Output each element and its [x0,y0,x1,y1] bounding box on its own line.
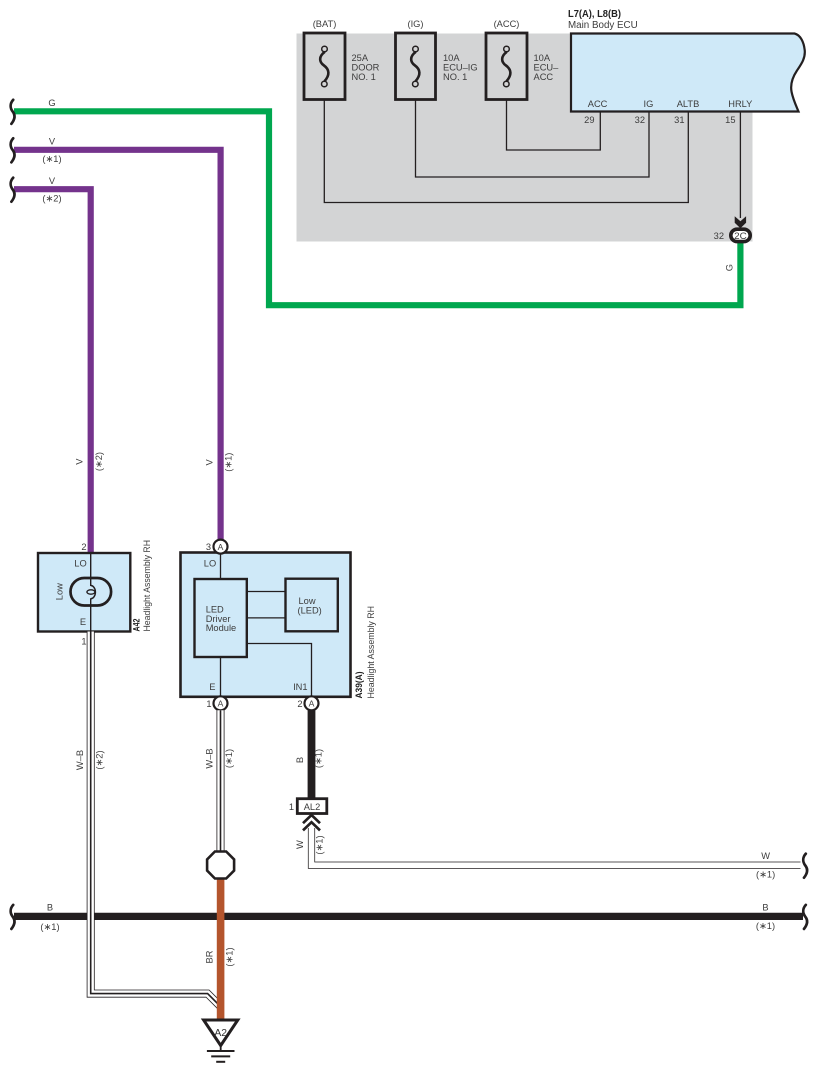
svg-text:A42: A42 [132,619,142,632]
wire E stub [220,657,222,697]
svg-text:(∗1): (∗1) [224,947,234,966]
svg-text:ECU–IG: ECU–IG [443,63,478,73]
svg-text:IG: IG [643,99,653,109]
bulb Low [71,578,112,606]
wire B ground bus [14,913,803,920]
wire LO stub [220,553,222,580]
svg-text:Headlight Assembly RH: Headlight Assembly RH [366,606,376,699]
svg-text:1: 1 [81,636,86,646]
wire link driver to IN1 [247,644,312,697]
svg-text:IN1: IN1 [293,682,307,692]
svg-text:LO: LO [74,558,86,568]
svg-text:3: 3 [206,542,211,552]
filament loop [91,586,96,599]
low LED box [286,579,338,632]
svg-text:W: W [761,851,770,861]
fuse (IG) 10A ECU-IG NO.1 [396,33,436,100]
relay block gray background [297,34,753,242]
svg-text:(∗1): (∗1) [314,835,324,854]
svg-text:Module: Module [206,623,237,633]
ground A2 [204,1020,238,1062]
svg-text:(∗1): (∗1) [224,453,234,472]
svg-text:32: 32 [714,231,724,241]
svg-text:A: A [309,699,315,709]
svg-text:ECU–: ECU– [534,63,560,73]
svg-text:(∗1): (∗1) [756,870,775,880]
svg-text:(∗1): (∗1) [42,154,61,164]
svg-text:Low: Low [55,583,65,600]
svg-text:V: V [49,176,56,186]
svg-text:2: 2 [297,699,302,709]
svg-text:(∗1): (∗1) [40,922,59,932]
svg-text:15: 15 [725,115,735,125]
svg-text:10A: 10A [443,53,460,63]
svg-text:AL2: AL2 [304,802,321,812]
svg-text:(∗2): (∗2) [94,750,104,769]
arrowhead into 2C [735,216,746,228]
break squiggle W right [803,854,807,878]
svg-text:W: W [295,840,305,849]
wire B from A39 pin IN1 to AL2 [308,710,316,799]
svg-text:W–B: W–B [75,750,85,770]
svg-text:V: V [74,458,84,465]
svg-text:Main Body ECU: Main Body ECU [568,20,638,31]
pin 2 connector circle A [305,696,319,710]
internal wire [90,553,92,586]
svg-text:A39(A): A39(A) [354,672,364,699]
splice chevron 2 [303,822,320,830]
break squiggle V2 left [11,178,15,202]
svg-text:(∗1): (∗1) [224,749,234,768]
svg-text:(ACC): (ACC) [494,19,520,29]
wire V (&#8727;1) purple from left edge to A39 pin 3 [14,150,221,541]
svg-text:A: A [218,542,224,552]
wire W (&#8727;1) from AL2 to right edge [312,826,801,865]
splice chevron 1 [303,815,320,823]
svg-text:(∗1): (∗1) [313,749,323,768]
svg-text:29: 29 [584,115,594,125]
junction octagon [207,852,234,879]
main body ECU box U1 [571,34,805,112]
svg-text:(BAT): (BAT) [313,19,337,29]
svg-text:1: 1 [206,699,211,709]
svg-text:25A: 25A [352,53,369,63]
svg-text:NO. 1: NO. 1 [443,72,467,82]
pin 1 connector circle A [214,696,228,710]
pin 3 connector circle A [214,540,228,554]
wire fuse ACC to ECU pin ACC [507,87,601,151]
svg-text:BR: BR [204,950,214,963]
wire link driver to LED 2 [247,617,286,619]
svg-text:A: A [218,699,224,709]
svg-text:E: E [80,617,86,627]
break squiggle V1 left [11,138,15,162]
svg-text:G: G [48,98,55,108]
svg-text:NO. 1: NO. 1 [352,72,376,82]
headlight A39 box [181,553,351,697]
svg-text:(∗2): (∗2) [42,194,61,204]
svg-text:HRLY: HRLY [728,99,752,109]
connector 2C [731,229,750,241]
svg-text:L7(A), L8(B): L7(A), L8(B) [568,9,621,20]
svg-text:1: 1 [289,802,294,812]
wire BR to ground [217,877,225,1021]
svg-text:E: E [209,682,215,692]
wire W-B (&#8727;1) from A39 pin E to junction [217,710,225,852]
svg-text:ACC: ACC [588,99,608,109]
fuse (BAT) 25A DOOR NO.1 [304,33,345,100]
svg-text:(∗2): (∗2) [94,452,104,471]
svg-text:(LED): (LED) [298,606,322,616]
wire fuse BAT to ECU pin ALTB [324,87,688,203]
fuse (ACC) 10A ECU-ACC [486,33,527,100]
svg-text:LO: LO [204,558,216,568]
svg-text:A2: A2 [214,1028,227,1039]
svg-text:V: V [49,136,56,146]
svg-text:W–B: W–B [205,748,215,768]
svg-text:2C: 2C [734,231,747,242]
svg-text:B: B [762,903,768,913]
headlight A42 box [38,553,130,632]
svg-text:Headlight Assembly RH: Headlight Assembly RH [142,540,152,632]
wire W-B (&#8727;2) from A42 pin 1 to ground junction [91,632,221,1008]
wire ECU pin HRLY down to connector 2C [739,112,741,219]
wire V (&#8727;2) purple from left edge to A42 pin 2 [14,189,91,554]
svg-text:(IG): (IG) [407,19,423,29]
svg-text:32: 32 [635,115,645,125]
break squiggle B right [803,905,807,929]
wire link driver to LED 1 [247,591,286,593]
svg-text:DOOR: DOOR [352,63,380,73]
svg-text:ACC: ACC [534,72,554,82]
LED driver module box [195,579,247,657]
connector AL2 [297,799,327,814]
break squiggle B left [11,905,15,929]
wire G green from left edge to 2C [14,111,740,305]
svg-text:V: V [204,459,214,466]
svg-text:10A: 10A [534,53,551,63]
svg-text:2: 2 [81,542,86,552]
svg-text:B: B [47,903,53,913]
svg-text:G: G [725,264,735,271]
svg-text:B: B [295,757,305,763]
svg-text:31: 31 [674,115,684,125]
wire fuse IG to ECU pin IG [416,87,650,178]
svg-text:(∗1): (∗1) [756,921,775,931]
svg-text:ALTB: ALTB [677,99,700,109]
break squiggle G left [11,100,15,124]
